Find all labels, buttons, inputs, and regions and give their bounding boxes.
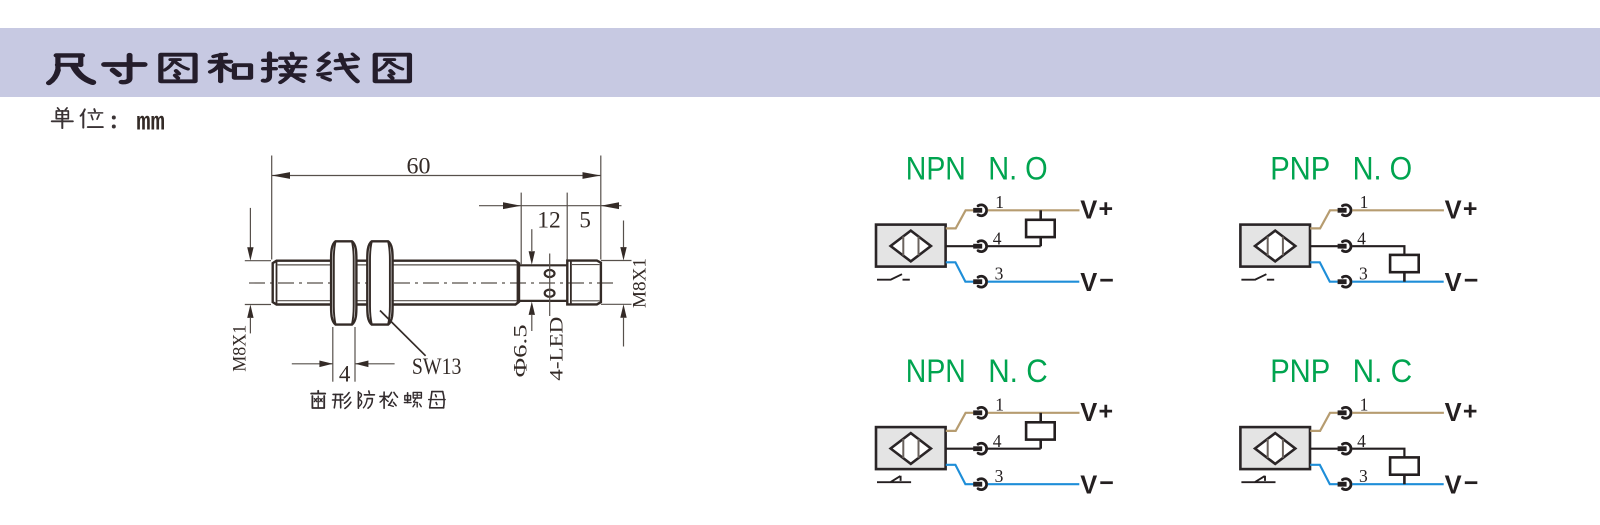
load resistor	[1390, 457, 1419, 474]
N.C switch contact symbol	[877, 476, 911, 483]
svg-text:V: V	[1445, 269, 1462, 297]
svg-text:60: 60	[407, 154, 431, 179]
diamond face line right	[918, 439, 920, 458]
svg-text:1: 1	[1360, 394, 1369, 414]
svg-text:N. O: N. O	[988, 150, 1047, 186]
connector left inner edge	[570, 261, 572, 303]
svg-text:N. C: N. C	[988, 353, 1047, 389]
load resistor	[1026, 220, 1055, 237]
svg-text:SW13: SW13	[412, 354, 462, 379]
header band	[0, 28, 1600, 97]
svg-text:V: V	[1445, 471, 1462, 499]
wire black pin4 to load	[1352, 449, 1404, 458]
M8X1 left bottom arrow tail	[249, 318, 251, 333]
N.O switch contact symbol	[877, 274, 910, 280]
thread crest line bottom	[278, 300, 518, 302]
M8X1 right bottom arrow tail	[623, 318, 625, 347]
svg-text:5: 5	[579, 208, 591, 233]
svg-text:Φ6.5: Φ6.5	[511, 324, 532, 377]
unit label 单位：mm	[52, 108, 116, 129]
svg-text:+: +	[1099, 195, 1114, 223]
connector pin 4	[973, 244, 982, 249]
svg-text:V: V	[1080, 196, 1097, 224]
wire black pin4 to load	[988, 448, 1041, 450]
svg-text:M8X1: M8X1	[630, 258, 651, 308]
wire black pin4 to load	[988, 245, 1041, 247]
centerline	[249, 282, 617, 284]
hex nut 2 (SW13 toothed lock nut)	[367, 241, 392, 324]
svg-text:4-LED: 4-LED	[547, 317, 568, 381]
diamond face line left	[902, 236, 904, 255]
svg-text:3: 3	[995, 466, 1004, 486]
M8X1 left bottom arrowhead	[247, 305, 253, 318]
proximity sensor diamond symbol	[891, 231, 931, 262]
connector pin 3	[973, 482, 982, 487]
wire brown to V+	[1352, 412, 1444, 414]
svg-text:1: 1	[995, 192, 1004, 212]
extension line left (60)	[271, 156, 273, 260]
wire blue to V-	[1352, 483, 1444, 485]
M8X1 right top arrow tail	[623, 221, 625, 248]
svg-text:mm: mm	[136, 108, 165, 138]
svg-text:−: −	[1464, 469, 1479, 497]
connector thread line top	[572, 264, 600, 266]
extension line (12/5)	[566, 193, 568, 260]
svg-text:V: V	[1080, 269, 1097, 297]
svg-text:N. C: N. C	[1353, 353, 1413, 389]
wire pin3 blue segment from sensor	[946, 465, 974, 484]
load connection to wire 4	[1039, 237, 1042, 246]
dia 6.5 top arrowhead	[529, 251, 535, 264]
load connection to wire 4	[1039, 440, 1042, 449]
extension line connector bottom right	[601, 303, 632, 305]
svg-text:3: 3	[1359, 263, 1368, 283]
arrowhead 5 right	[601, 202, 619, 209]
wire pin3 blue segment from sensor	[1310, 465, 1338, 484]
sensor body box	[876, 427, 946, 469]
connector thread line bottom	[572, 300, 600, 302]
barrel left cap inner edge	[276, 262, 278, 304]
wire pin1 brown segment from sensor	[946, 210, 974, 228]
dimension line 12 and 5	[479, 205, 622, 207]
load resistor	[1026, 422, 1055, 439]
wire pin4 black segment from sensor	[1310, 245, 1338, 247]
dia 6.5 top arrow tail	[531, 229, 533, 251]
svg-text:1: 1	[1360, 192, 1369, 212]
LED indicator hole 2	[545, 290, 555, 297]
diamond face line left	[1267, 439, 1269, 458]
extension line (12) left	[520, 193, 522, 265]
svg-text:V: V	[1080, 471, 1097, 499]
svg-text:+: +	[1463, 195, 1478, 223]
connector pin 3	[1338, 279, 1347, 284]
arrowhead 4 left	[319, 361, 332, 368]
wire blue to V-	[1352, 281, 1444, 283]
wire pin3 blue segment from sensor	[1310, 262, 1338, 281]
wire pin4 black segment from sensor	[946, 448, 974, 450]
extension line right (60)	[600, 156, 602, 260]
wire pin1 brown segment from sensor	[946, 413, 974, 431]
connector pin 4	[973, 446, 982, 451]
extension line barrel bottom left	[245, 304, 271, 306]
SW13 leader line	[380, 311, 426, 356]
4-LED leader line	[549, 254, 551, 317]
connector pin 1	[1338, 410, 1347, 415]
svg-text:V: V	[1445, 196, 1462, 224]
extension line barrel top left	[245, 260, 271, 262]
connector pin 4	[1338, 244, 1347, 249]
load resistor	[1390, 255, 1419, 272]
svg-text:3: 3	[995, 263, 1004, 283]
connector pin 1	[1338, 208, 1347, 213]
connector pin 3	[973, 279, 982, 284]
diamond face line right	[1282, 439, 1284, 458]
proximity sensor diamond symbol	[891, 433, 931, 464]
load connection to V+	[1039, 210, 1042, 220]
svg-text:3: 3	[1359, 466, 1368, 486]
svg-text:PNP: PNP	[1270, 150, 1330, 186]
connector pin 1	[973, 208, 982, 213]
wire brown to V+	[988, 412, 1080, 414]
svg-text:−: −	[1099, 266, 1114, 294]
svg-text:N. O: N. O	[1353, 150, 1413, 186]
hex nut 1	[331, 241, 356, 324]
sensor barrel outline	[273, 261, 519, 305]
svg-text:+: +	[1099, 397, 1114, 425]
wire pin4 black segment from sensor	[946, 245, 974, 247]
svg-text:1: 1	[995, 394, 1004, 414]
wire pin4 black segment from sensor	[1310, 448, 1338, 450]
M8X1 right bottom arrowhead	[620, 304, 626, 317]
arrowhead 60 left	[272, 172, 290, 179]
connector pin 3	[1338, 482, 1347, 487]
thread crest line top	[278, 264, 518, 266]
dim 4 left tail	[292, 363, 333, 365]
load connection to V+	[1039, 413, 1042, 423]
svg-text:−: −	[1464, 266, 1479, 294]
svg-text:+: +	[1463, 397, 1478, 425]
diamond face line right	[1282, 237, 1284, 256]
wire pin1 brown segment from sensor	[1310, 413, 1338, 431]
narrow mid section	[519, 265, 567, 301]
arrowhead 60 right	[583, 172, 601, 179]
arrowhead 12 left	[503, 202, 521, 209]
svg-text:M8X1: M8X1	[230, 325, 251, 372]
sensor body box	[1240, 427, 1310, 469]
note 齿形防松螺母 (toothed lock nut)	[311, 391, 445, 409]
wire pin1 brown segment from sensor	[1310, 210, 1338, 228]
wire blue to V-	[988, 483, 1080, 485]
load connection to V-	[1403, 272, 1406, 282]
extension line 4 right	[354, 327, 356, 382]
M8X1 left top arrow tail	[249, 208, 251, 249]
sensor body box	[1240, 225, 1310, 267]
connector pin 1	[973, 410, 982, 415]
dia 6.5 bottom arrowhead	[529, 302, 535, 315]
load connection to V-	[1403, 475, 1406, 485]
M8X1 right top arrowhead	[620, 247, 626, 260]
svg-text:−: −	[1099, 469, 1114, 497]
LED indicator hole 1	[545, 270, 555, 277]
N.O switch contact symbol	[1241, 274, 1274, 280]
proximity sensor diamond symbol	[1255, 433, 1295, 464]
diamond face line right	[918, 237, 920, 256]
wire black pin4 to load	[1352, 246, 1404, 255]
svg-text:PNP: PNP	[1270, 353, 1330, 389]
svg-text:V: V	[1080, 399, 1097, 427]
arrowhead 4 right	[355, 361, 368, 368]
svg-text:NPN: NPN	[906, 353, 966, 389]
extension line connector top right	[601, 260, 632, 262]
dimension line 60	[272, 175, 601, 177]
svg-text:4: 4	[339, 362, 351, 387]
extension line 4 left	[332, 327, 334, 382]
N.C switch contact symbol	[1241, 476, 1275, 483]
dim 4 right tail	[355, 363, 395, 365]
connector pin 4	[1338, 446, 1347, 451]
dia 6.5 bottom arrow tail	[531, 315, 533, 331]
rear M8 connector outline	[567, 261, 601, 305]
wire blue to V-	[988, 281, 1080, 283]
proximity sensor diamond symbol	[1255, 231, 1295, 262]
wire brown to V+	[988, 209, 1080, 211]
wire brown to V+	[1352, 209, 1444, 211]
diamond face line left	[1267, 236, 1269, 255]
page title 尺寸图和接线图	[49, 53, 410, 83]
svg-text:12: 12	[537, 208, 561, 233]
svg-text:NPN: NPN	[906, 150, 966, 186]
sensor body box	[876, 225, 946, 267]
svg-text:V: V	[1445, 399, 1462, 427]
barrel right step edge	[517, 262, 519, 304]
M8X1 left top arrowhead	[247, 247, 253, 260]
diamond face line left	[902, 439, 904, 458]
wire pin3 blue segment from sensor	[946, 262, 974, 281]
